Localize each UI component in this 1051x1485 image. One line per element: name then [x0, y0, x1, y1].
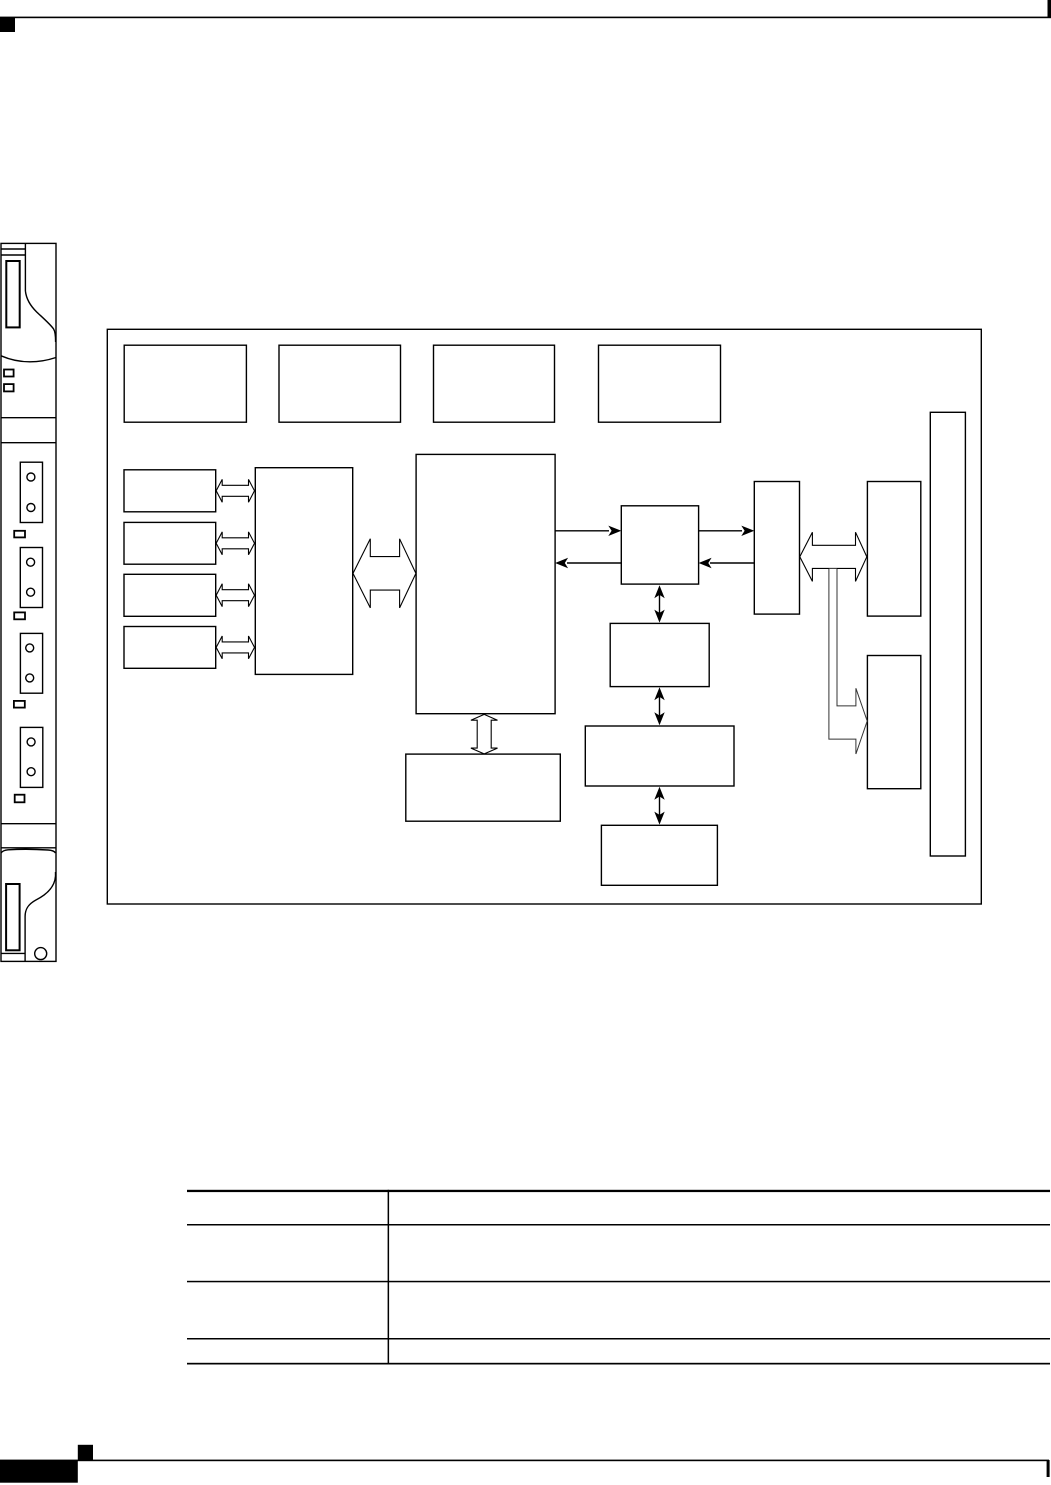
table column divider — [388, 1190, 390, 1365]
arrow cpu to pci (right) — [555, 530, 609, 532]
left port box 1 — [124, 470, 216, 512]
faceplate top band line 1 — [1, 248, 25, 250]
outline double arrow port3-controller — [216, 584, 254, 607]
outline double arrow port4-controller — [216, 636, 254, 659]
arrow pci to cpu (left) — [567, 562, 621, 564]
connector 4 screw top — [27, 738, 35, 746]
elbow outline arrow to right lower box — [829, 569, 867, 754]
right outline double arrow businterface-rightupper — [800, 532, 867, 581]
table row line 1 — [187, 1224, 1050, 1226]
arrow businterface to pci (left) — [710, 562, 754, 564]
top gasket sag arc — [1, 356, 56, 362]
top box 4 — [599, 345, 721, 422]
connector 4 screw bottom — [27, 768, 35, 776]
header left black square — [0, 17, 15, 32]
connector 2 — [20, 548, 42, 608]
bottom ejector curve — [25, 872, 55, 961]
bottom ejector slot rect — [6, 884, 20, 950]
top box 3 — [434, 345, 555, 422]
vertical outline double arrow cpu-bootflash — [471, 714, 498, 754]
left port box 3 — [124, 574, 216, 616]
outline double arrow port1-controller — [216, 479, 254, 502]
faceplate outline — [1, 243, 56, 961]
footer right tick — [1047, 1460, 1050, 1477]
big outline double arrow controller-cpu — [353, 539, 416, 608]
bottom band line — [1, 952, 25, 954]
LED square 1 — [4, 370, 14, 377]
port square 2 — [14, 612, 25, 619]
boot flash box — [406, 754, 561, 821]
connector 1 screw top — [27, 473, 35, 481]
memory box 3 bottom — [601, 825, 717, 885]
double arrow memory2-memory3 — [659, 795, 661, 816]
port square 1 — [14, 531, 25, 538]
connector 3 — [20, 633, 42, 693]
pci controller box — [621, 506, 698, 584]
connector 2 screw bottom — [27, 588, 35, 596]
top ejector slot rect — [6, 261, 19, 327]
left port box 2 — [124, 522, 216, 564]
top box 1 — [124, 345, 246, 422]
arrow pci to businterface (right) — [699, 530, 742, 532]
port square 4 — [15, 795, 25, 803]
bus interface box — [754, 482, 799, 615]
double arrow memory1-memory2 — [659, 695, 661, 717]
memory box 1 — [610, 623, 709, 686]
connector 2 screw top — [27, 558, 35, 566]
interface controller box — [255, 468, 352, 675]
connector 3 screw bottom — [26, 674, 34, 682]
top ejector curve — [25, 291, 55, 342]
table bottom border — [187, 1363, 1050, 1365]
right lower box — [867, 656, 920, 789]
port square 3 — [14, 701, 25, 708]
bottom block bulge arc — [1, 849, 56, 853]
LED square 2 — [4, 384, 14, 391]
left port box 4 — [124, 627, 216, 669]
connector 1 screw bottom — [27, 504, 35, 512]
table row line 3 — [187, 1338, 1050, 1340]
double arrow pci-memory1 — [659, 594, 661, 615]
table top border — [187, 1190, 1050, 1192]
right upper box — [867, 482, 920, 617]
diagram outer border — [107, 329, 981, 904]
footer rule — [0, 1460, 1049, 1462]
bottom screw circle — [35, 948, 47, 960]
backplane bar — [930, 412, 965, 856]
outline double arrow port2-controller — [216, 532, 254, 555]
header right corner tick — [1048, 0, 1051, 18]
memory box 2 wide — [585, 726, 734, 786]
faceplate top column divider — [24, 243, 26, 291]
cpu box — [416, 454, 555, 713]
footer black square — [78, 1445, 93, 1461]
connector 1 — [20, 462, 42, 522]
connector 4 — [20, 727, 42, 787]
footer left black block — [0, 1460, 78, 1482]
section divider line B1 — [1, 823, 56, 825]
section divider line A1 — [1, 417, 56, 419]
connector 3 screw top — [26, 644, 34, 652]
top box 2 — [279, 345, 401, 422]
header rule — [0, 17, 1051, 19]
faceplate top band line 2 — [1, 254, 25, 256]
section divider line A2 — [1, 442, 56, 444]
table row line 2 — [187, 1281, 1050, 1283]
section divider line B2 — [1, 847, 56, 849]
